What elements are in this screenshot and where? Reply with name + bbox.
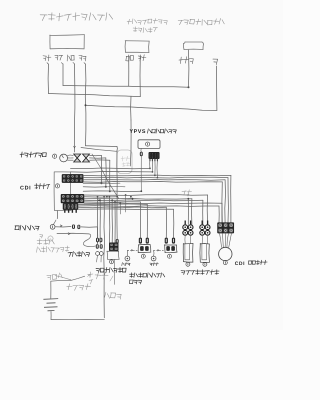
svg-text:CDI: CDI	[235, 261, 245, 267]
svg-text:CDI: CDI	[20, 185, 31, 191]
svg-text:YPVS: YPVS	[130, 129, 147, 135]
